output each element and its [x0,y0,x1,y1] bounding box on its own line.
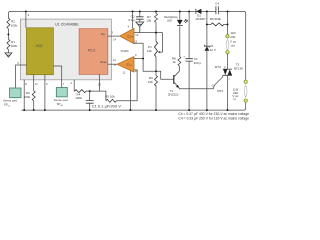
svg-text:R9 560k: R9 560k [210,17,222,21]
svg-text:LED: LED [167,20,172,23]
wire R5 to pin 10 [116,70,137,101]
svg-text:PC-2: PC-2 [88,49,95,53]
wire PC2 Sig out pin3/14 to op-amp [108,35,120,37]
svg-text:230: 230 [230,35,235,39]
svg-text:C4 = 0.33 µF 250 V for 110-V a: C4 = 0.33 µF 250 V for 110-V ac mains vo… [178,117,249,121]
sense pad SP(off) [56,88,67,97]
wire pin13 row to P1 wiper [134,33,162,53]
resistor R2 [7,18,10,29]
wire top supply rail [8,11,245,80]
capacitor C2 [139,11,141,22]
svg-text:13: 13 [98,83,101,87]
svg-text:12: 12 [134,40,137,44]
svg-text:14: 14 [113,37,116,41]
wire pin12 stub [134,43,143,58]
svg-text:IC1.d: IC1.d [127,35,133,38]
svg-text:100k: 100k [24,95,31,99]
wire bottom ground rail [21,103,245,111]
svg-text:11: 11 [123,71,126,75]
svg-text:100k: 100k [11,44,18,48]
svg-text:Backlighting: Backlighting [164,16,178,19]
svg-text:C4: C4 [215,2,219,6]
svg-text:100k: 100k [75,96,82,100]
svg-text:C1 0.1 µF/200 V: C1 0.1 µF/200 V [92,104,122,109]
node A pad1 wire pin 6 [16,65,27,88]
transistor T1 2N2222 [178,66,180,71]
svg-text:VCO: VCO [36,44,43,48]
svg-text:2N2222: 2N2222 [168,92,179,96]
wire pin 8 [23,80,25,110]
resistor R7 and pot P1 column [155,11,157,110]
lamp (load) symbol [226,39,229,50]
resistor R5 [106,99,117,102]
PC-2 block [79,29,108,75]
svg-text:BT136: BT136 [234,66,243,70]
svg-text:11: 11 [35,82,38,86]
svg-text:Sig: Sig [101,32,105,36]
wire pin 9 [25,11,27,27]
ground below C2 [136,22,144,33]
resistor R4 [75,90,87,93]
resistor R6 [155,75,158,86]
terminal 110/230 V ac out (top) [226,35,229,38]
svg-text:10k: 10k [147,49,152,53]
svg-text:C4 = 0.47 µF 400 V for 230-V a: C4 = 0.47 µF 400 V for 230-V ac mains vo… [178,112,249,116]
svg-text:+: + [183,54,185,58]
wire pin9/12 node down to row [143,59,174,80]
svg-text:100k: 100k [11,24,18,28]
svg-text:10k: 10k [146,19,151,23]
wire pad2 pin 7 from VCO right edge [53,66,61,88]
resistor R9 (parallel) [207,23,228,25]
IC U1 CD4046BE box [20,19,111,80]
op-amp IC1.c (lower, points left) [117,57,134,73]
resistor R8 [178,56,181,66]
wire pin 11 TL084 to ground rail [129,70,131,110]
svg-text:1N4007: 1N4007 [195,17,206,21]
wire R2-R1 [7,29,9,40]
capacitor C4 (series in rail) [216,6,218,14]
terminal (bottom of lamp) [226,51,229,54]
wire MT1 down [227,75,229,110]
potentiometer P1 [155,41,158,57]
svg-text:1k: 1k [172,60,176,64]
diode D1 1N4007 (in rail) [196,9,201,14]
svg-text:in: in [234,97,237,101]
svg-text:MT1: MT1 [217,89,223,93]
svg-text:13: 13 [135,33,138,37]
sense pad SP(on) [10,88,21,98]
wire C4/R9 right node down to out terminal [227,11,229,34]
svg-text:10: 10 [135,69,138,73]
svg-text:out: out [231,43,235,47]
wire PC2 Rese pin15/8 to op-amp [108,63,117,65]
svg-text:IC1.c: IC1.c [126,64,132,67]
svg-text:14: 14 [113,58,116,62]
svg-text:10k: 10k [148,80,153,84]
resistor R1 [7,39,10,49]
terminal 110/230 V ac in (bottom right) [244,99,247,102]
svg-text:MT2: MT2 [215,65,221,69]
VCO block [26,28,53,75]
svg-text:U1 CD4046BE: U1 CD4046BE [55,22,79,26]
zener diode Z1 12V [206,11,208,110]
svg-text:R5 10k: R5 10k [105,95,115,99]
svg-text:220 µ: 220 µ [194,61,202,65]
capacitor C3 220u [188,11,190,110]
op-amp IC1.d (upper, points left) [120,28,134,44]
ground [5,53,12,57]
mains in lens symbol [244,85,247,97]
wire R4 node to pin13 and R5 [86,91,106,101]
svg-text:12 V: 12 V [210,48,217,52]
svg-text:TL084: TL084 [120,49,129,53]
terminal mains in (upper) [244,80,247,83]
wire R1-ground [7,49,9,52]
wire pin 13 [98,74,100,91]
wire T1 emitter to triac gate [179,75,223,88]
svg-text:0.1 µ: 0.1 µ [128,18,135,22]
wire pin 4 [73,80,75,91]
LED backlight [179,11,181,56]
wire pin 5 [44,75,46,110]
svg-text:G: G [212,84,214,88]
capacitor C1 [89,91,91,110]
wire pin 11 / resistor R3 [33,75,35,110]
svg-text:Rese: Rese [101,60,108,64]
triac T2 BT136 [227,54,229,69]
wire pin 4 supply stub [132,11,134,28]
